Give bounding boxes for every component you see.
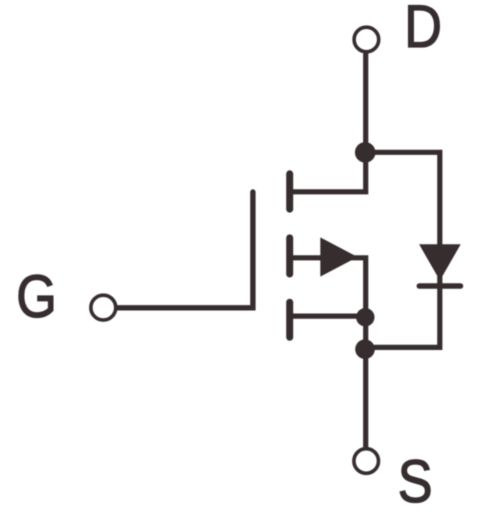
svg-text:D: D (404, 0, 442, 60)
terminal D (354, 27, 379, 52)
MOSFET body arrow head (320, 237, 357, 276)
wire MOSFET source lead (291, 314, 365, 319)
node source-diode junction (355, 339, 375, 359)
terminal G (91, 295, 116, 320)
body diode cathode bar (419, 283, 460, 289)
MOSFET channel bar top (286, 174, 293, 209)
wire drain node to body diode branch (365, 152, 440, 347)
wire gate terminal to gate electrode (118, 192, 253, 308)
node source-channel junction (356, 308, 374, 326)
MOSFET channel bar middle (286, 238, 293, 274)
wire drain terminal to drain node (363, 54, 368, 153)
wire body arrow corner to S terminal (291, 258, 366, 448)
terminal S (354, 449, 379, 474)
svg-text:G: G (16, 263, 57, 330)
svg-text:S: S (398, 448, 433, 512)
node drain junction (355, 142, 376, 163)
body diode anode triangle (419, 244, 461, 280)
wire drain node to MOSFET drain lead (288, 152, 366, 191)
MOSFET channel bar bottom (286, 302, 293, 337)
